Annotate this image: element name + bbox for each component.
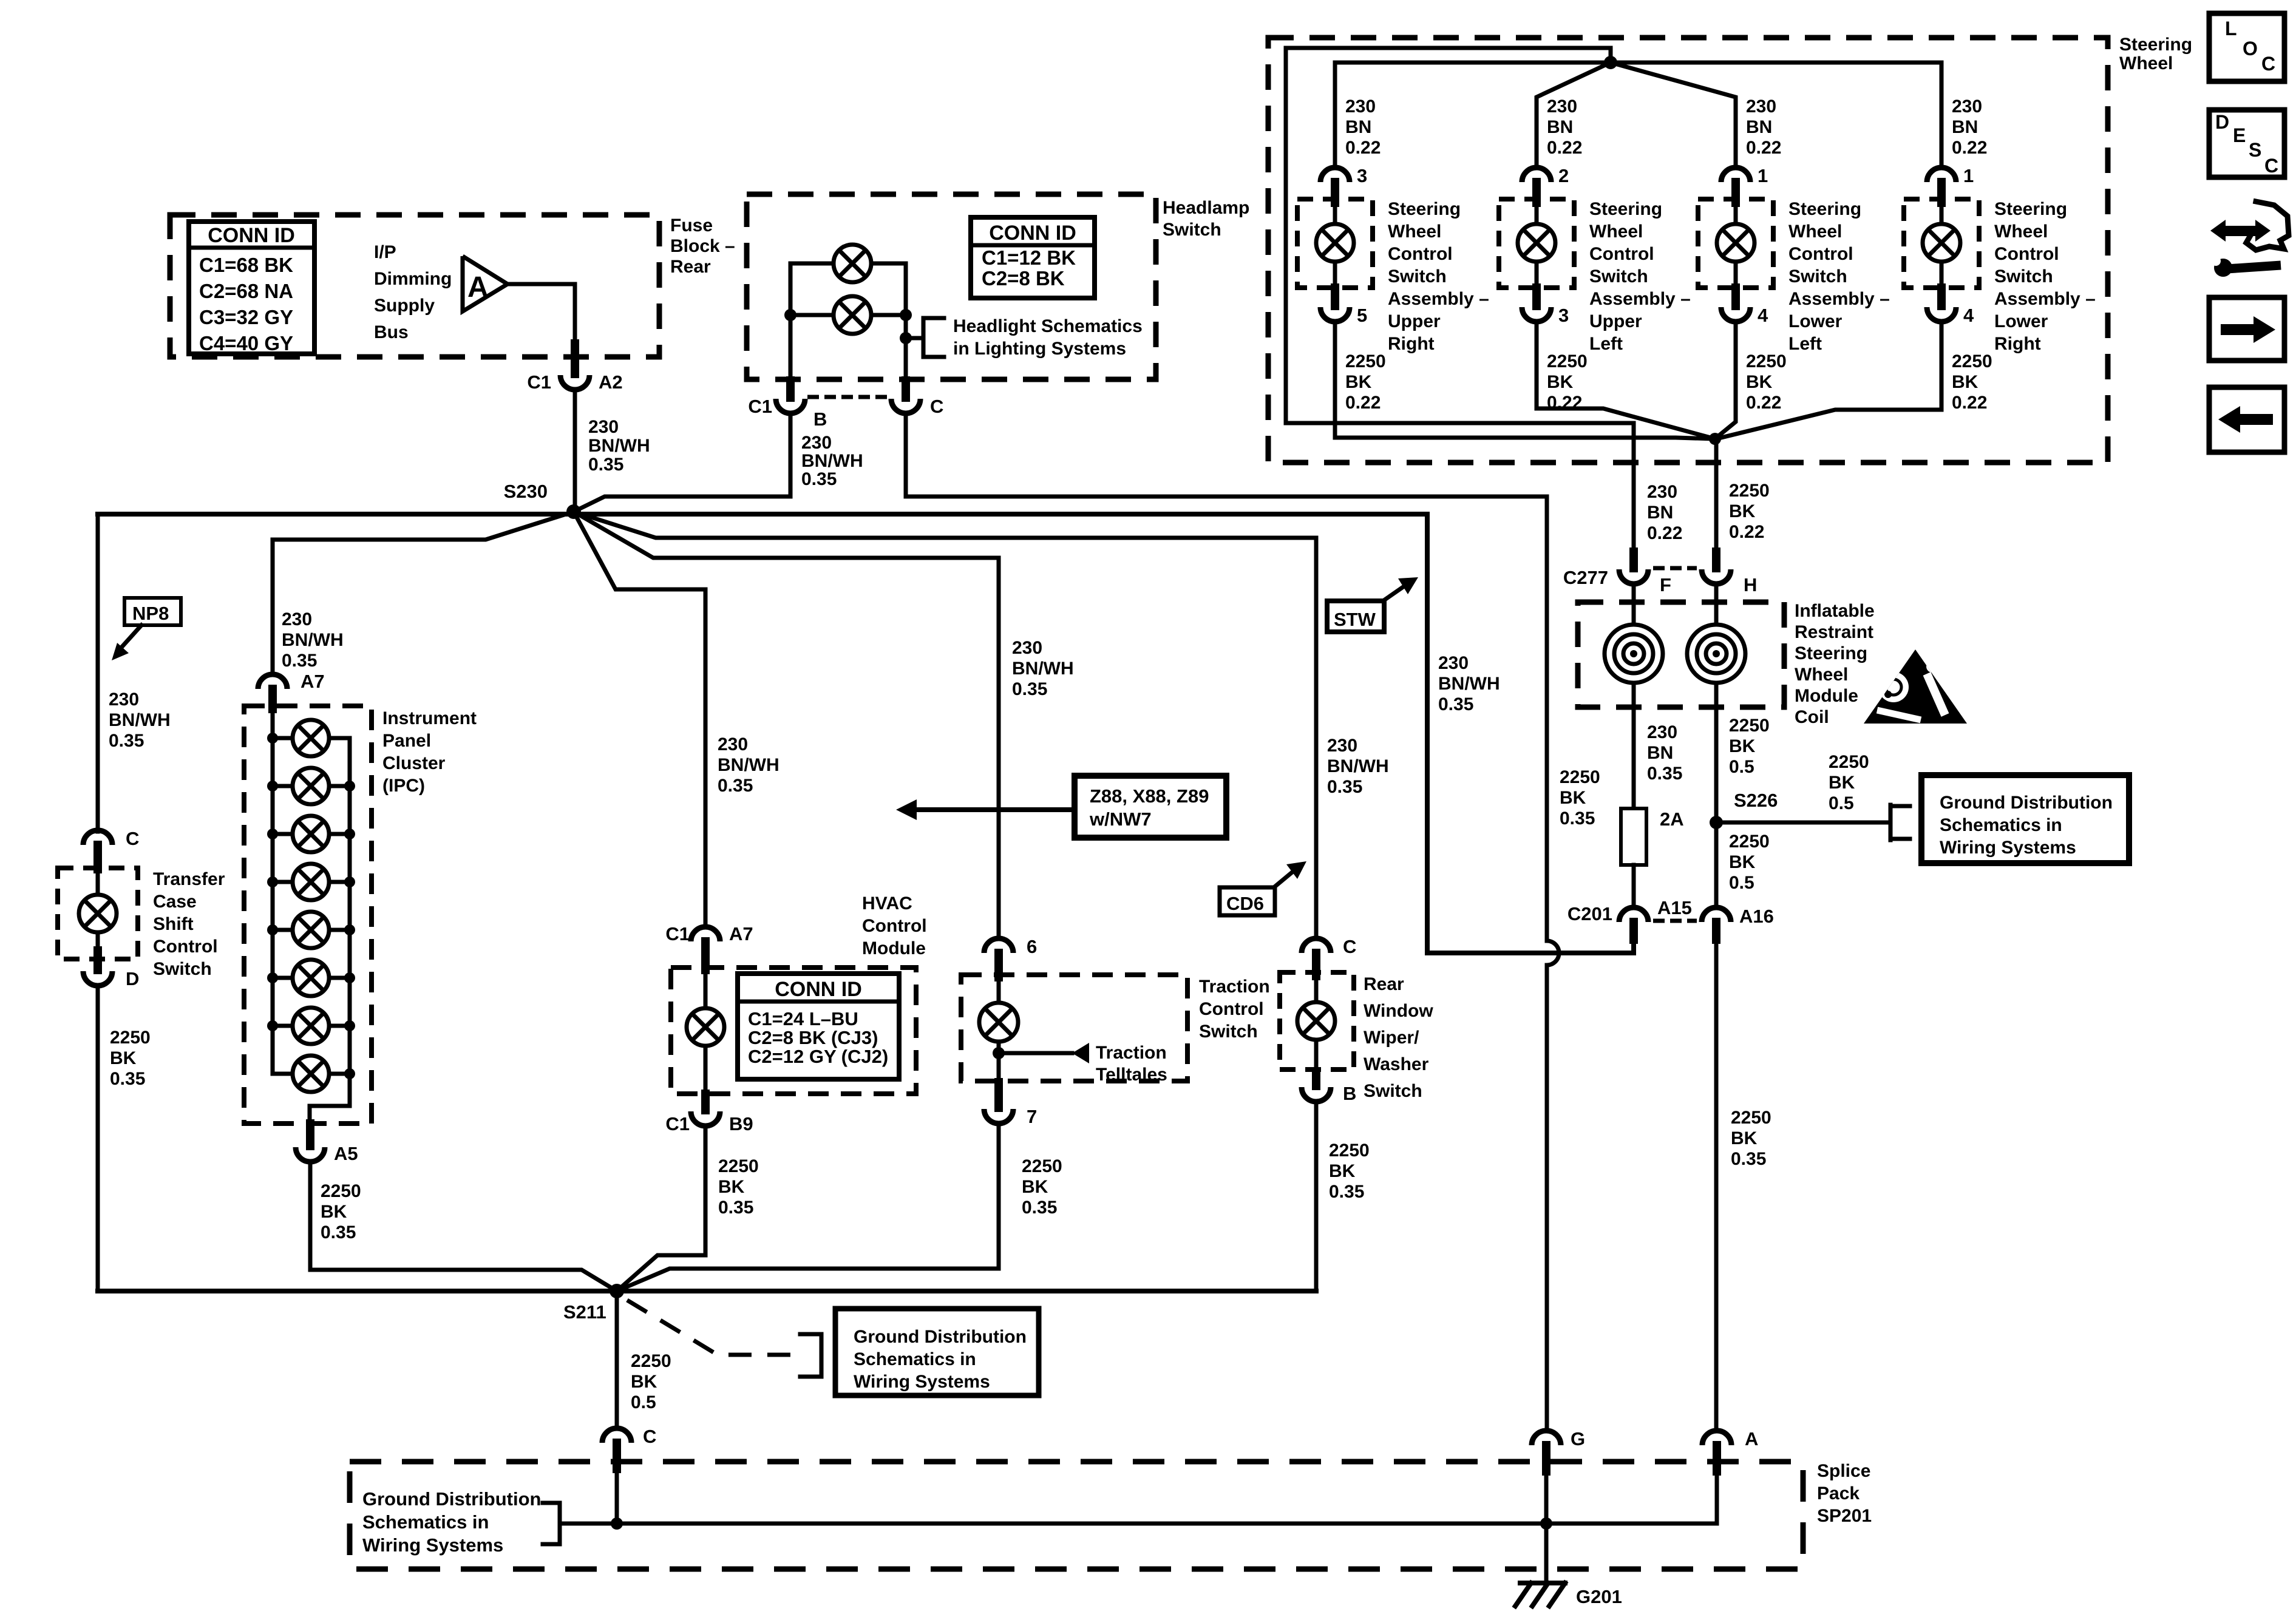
- svg-text:2: 2: [1558, 165, 1569, 186]
- svg-text:230: 230: [1647, 722, 1677, 742]
- ground return wire switch Upper Left: [1537, 322, 1715, 439]
- svg-text:3: 3: [1558, 305, 1569, 326]
- svg-text:Schematics in: Schematics in: [1940, 815, 2062, 835]
- svg-text:230: 230: [1327, 736, 1357, 756]
- svg-text:(IPC): (IPC): [382, 776, 425, 796]
- dashed connector face line C1-C: [807, 395, 888, 399]
- svg-text:Transfer: Transfer: [153, 869, 225, 889]
- svg-text:BK: BK: [1022, 1177, 1048, 1197]
- svg-text:Washer: Washer: [1364, 1054, 1429, 1074]
- buffer triangle A (I/P dimming supply): [463, 256, 508, 311]
- svg-text:4: 4: [1963, 305, 1974, 326]
- svg-text:0.22: 0.22: [1952, 138, 1987, 158]
- svg-text:2250: 2250: [1729, 716, 1770, 736]
- svg-text:Panel: Panel: [382, 731, 431, 751]
- steering wheel feed bus junction: [1604, 56, 1617, 69]
- connector 3 (steering wheel control switch Upper Left): [1532, 288, 1541, 306]
- svg-text:0.22: 0.22: [1729, 522, 1764, 542]
- connector 2 (steering wheel control switch Upper Left): [1522, 168, 1551, 182]
- inflatable restraint steering wheel module coil dashed box: [1578, 602, 1784, 707]
- svg-text:0.35: 0.35: [1327, 777, 1362, 797]
- svg-text:0.22: 0.22: [1345, 393, 1381, 413]
- svg-text:Assembly –: Assembly –: [1788, 289, 1890, 309]
- CONN ID table (headlamp switch): [971, 217, 1095, 298]
- svg-text:230: 230: [718, 734, 748, 754]
- junction dots on headlamp rails: [784, 309, 796, 321]
- left wall wire S230 down to transfer case switch C: [96, 514, 100, 832]
- legend icon forward arrow: [2209, 297, 2284, 361]
- svg-text:C277: C277: [1563, 567, 1608, 588]
- svg-text:BK: BK: [1729, 852, 1756, 872]
- svg-text:S: S: [2249, 139, 2261, 161]
- svg-text:Switch: Switch: [1589, 266, 1648, 286]
- svg-text:C1: C1: [665, 923, 690, 944]
- svg-text:BK: BK: [1729, 736, 1756, 756]
- svg-text:B9: B9: [729, 1113, 753, 1134]
- CONN ID table (fuse block rear): [189, 222, 314, 354]
- svg-text:BN/WH: BN/WH: [1438, 674, 1500, 694]
- svg-text:BK: BK: [110, 1048, 137, 1068]
- splice S226: [1710, 816, 1723, 829]
- wire S226 down to C201 A16 with label 2250 BK 0.5: [1714, 822, 1719, 907]
- svg-text:2250: 2250: [1729, 832, 1770, 852]
- svg-text:Headlight Schematics: Headlight Schematics: [953, 316, 1143, 336]
- svg-text:C: C: [126, 828, 139, 849]
- wire 7 down to S211 with label 2250 BK 0.35: [617, 1124, 999, 1291]
- junction dot on IPC right rail: [344, 924, 355, 935]
- IPC illumination bulb 5 with row wires: [273, 928, 293, 932]
- svg-text:7: 7: [1027, 1106, 1037, 1127]
- svg-text:0.5: 0.5: [631, 1392, 656, 1412]
- IPC illumination bulb 6 with row wires: [273, 976, 293, 980]
- svg-text:230: 230: [801, 433, 832, 453]
- svg-text:BN: BN: [1952, 117, 1978, 137]
- svg-text:Steering: Steering: [2119, 35, 2192, 55]
- coil winding F side: [1632, 584, 1636, 626]
- svg-text:F: F: [1660, 574, 1671, 595]
- svg-text:0.35: 0.35: [321, 1222, 356, 1242]
- svg-text:Steering: Steering: [1788, 199, 1861, 219]
- coil winding H side: [1714, 584, 1719, 626]
- svg-text:Wheel: Wheel: [1388, 222, 1441, 242]
- svg-text:C2=8 BK (CJ3): C2=8 BK (CJ3): [748, 1027, 878, 1048]
- wire B down to S211 main line with label 2250 BK 0.35: [1314, 1102, 1319, 1291]
- svg-text:Rear: Rear: [1364, 974, 1404, 994]
- svg-text:BN/WH: BN/WH: [718, 755, 779, 775]
- wire S230 to HVAC control module terminal A7: [574, 512, 705, 927]
- svg-text:Fuse: Fuse: [670, 215, 713, 236]
- svg-text:Wiring Systems: Wiring Systems: [362, 1534, 503, 1556]
- svg-text:0.22: 0.22: [1345, 138, 1381, 158]
- svg-text:2250: 2250: [1729, 481, 1770, 501]
- svg-text:Traction: Traction: [1199, 977, 1270, 997]
- svg-text:Upper: Upper: [1589, 311, 1642, 331]
- splice pack SP201 dashed enclosure: [350, 1462, 1803, 1569]
- traction control switch bulb: [997, 977, 1001, 1003]
- svg-text:2250: 2250: [1746, 351, 1787, 371]
- svg-text:A7: A7: [301, 671, 325, 692]
- svg-text:BK: BK: [1729, 501, 1756, 521]
- svg-text:w/NW7: w/NW7: [1089, 808, 1152, 830]
- svg-text:CONN ID: CONN ID: [208, 224, 295, 247]
- svg-text:Left: Left: [1589, 334, 1623, 354]
- svg-text:0.35: 0.35: [718, 776, 753, 796]
- connector C201 pin A16: [1702, 907, 1731, 922]
- svg-text:Switch: Switch: [1788, 266, 1847, 286]
- svg-text:1: 1: [1758, 165, 1768, 186]
- wire A5 down to S211 with label 2250 BK 0.35: [310, 1162, 617, 1291]
- svg-text:230: 230: [1547, 97, 1577, 117]
- svg-text:C1=68 BK: C1=68 BK: [199, 254, 293, 276]
- svg-text:0.22: 0.22: [1547, 138, 1582, 158]
- svg-text:C201: C201: [1567, 903, 1612, 924]
- svg-text:Coil: Coil: [1795, 707, 1829, 727]
- svg-text:Lower: Lower: [1994, 311, 2048, 331]
- svg-text:BN: BN: [1746, 117, 1772, 137]
- svg-text:Switch: Switch: [1364, 1081, 1422, 1101]
- svg-text:4: 4: [1758, 305, 1768, 326]
- junction dot splice bus at G: [1540, 1517, 1552, 1530]
- svg-text:D: D: [2215, 111, 2229, 133]
- svg-text:A2: A2: [599, 371, 623, 393]
- junction dot on IPC left rail: [267, 1020, 278, 1031]
- switch Lower Right illumination bulb: [1940, 203, 1944, 224]
- wire F coil to fuse with label 230 BN 0.35: [1632, 683, 1636, 808]
- switch Lower Left illumination bulb: [1734, 203, 1738, 224]
- wire B9 down to S211 with label 2250 BK 0.35: [617, 1126, 705, 1291]
- option label NP8 with arrow: [124, 598, 181, 625]
- instrument panel cluster dashed box: [244, 706, 372, 1124]
- wire A2 down to S230 with label 230 BN/WH 0.35: [573, 390, 577, 512]
- svg-text:3: 3: [1357, 165, 1367, 186]
- svg-text:Wiring Systems: Wiring Systems: [1940, 838, 2076, 858]
- svg-text:Module: Module: [862, 938, 926, 958]
- svg-text:Control: Control: [862, 916, 927, 936]
- IPC illumination bulb 2 with row wires: [273, 784, 293, 788]
- svg-text:0.35: 0.35: [1012, 679, 1047, 699]
- connector C (transfer case shift control switch): [83, 830, 112, 845]
- svg-text:2250: 2250: [718, 1156, 759, 1176]
- svg-text:Block –: Block –: [670, 236, 735, 256]
- switch Upper Left illumination bulb: [1535, 203, 1539, 224]
- svg-text:1: 1: [1963, 165, 1974, 186]
- svg-text:CONN ID: CONN ID: [775, 978, 862, 1001]
- headlamp switch dashed enclosure: [747, 194, 1156, 379]
- svg-text:D: D: [126, 968, 139, 989]
- svg-text:BK: BK: [631, 1372, 657, 1392]
- svg-text:BK: BK: [1746, 372, 1773, 392]
- wire S226 to ground distribution reference with label 2250 BK 0.5: [1716, 821, 1890, 825]
- svg-text:Steering: Steering: [1994, 199, 2067, 219]
- svg-text:Schematics in: Schematics in: [362, 1511, 489, 1533]
- dashed connector face line C277: [1653, 566, 1697, 571]
- junction dot on IPC left rail: [267, 781, 278, 792]
- svg-text:H: H: [1744, 574, 1757, 595]
- svg-text:Control: Control: [153, 937, 218, 957]
- svg-text:BN/WH: BN/WH: [801, 451, 863, 471]
- svg-text:2250: 2250: [1560, 767, 1600, 787]
- connector C (rear window wiper/washer switch): [1302, 938, 1331, 953]
- svg-text:2250: 2250: [1022, 1156, 1062, 1176]
- reference box Ground Distribution Schematics in Wiring Systems (S211): [835, 1309, 1039, 1395]
- option label Z88, X88, Z89 w/NW7 with arrow: [1075, 776, 1226, 838]
- svg-text:Wheel: Wheel: [1589, 222, 1643, 242]
- svg-text:BK: BK: [1952, 372, 1978, 392]
- transfer case switch illumination bulb: [96, 870, 100, 895]
- svg-text:G: G: [1571, 1428, 1585, 1449]
- svg-text:CD6: CD6: [1226, 893, 1264, 914]
- wire S230 main horizontal to left wall: [98, 512, 574, 517]
- connector C (splice pack SP201): [602, 1428, 631, 1443]
- svg-text:C2=8 BK: C2=8 BK: [982, 267, 1065, 290]
- CONN ID table (HVAC control module): [738, 974, 899, 1079]
- junction dot on IPC right rail: [344, 1020, 355, 1031]
- steering wheel control switch assembly Lower Right dashed box: [1904, 199, 1979, 288]
- svg-text:Wiring Systems: Wiring Systems: [854, 1372, 990, 1392]
- junction dot on IPC right rail: [344, 829, 355, 839]
- svg-text:Ground Distribution: Ground Distribution: [1940, 793, 2113, 813]
- svg-text:Steering: Steering: [1589, 199, 1662, 219]
- svg-text:Wheel: Wheel: [1795, 665, 1848, 685]
- svg-text:0.35: 0.35: [1731, 1149, 1766, 1169]
- svg-text:0.35: 0.35: [1647, 764, 1682, 784]
- svg-text:0.5: 0.5: [1829, 793, 1854, 813]
- wire S230 to instrument panel cluster terminal A7: [273, 512, 574, 674]
- svg-text:0.35: 0.35: [109, 731, 144, 751]
- connector 4 (steering wheel control switch Lower Right): [1937, 288, 1946, 306]
- svg-text:230: 230: [1647, 482, 1677, 502]
- junction dot on IPC left rail: [267, 972, 278, 983]
- svg-text:Inflatable: Inflatable: [1795, 601, 1875, 621]
- svg-text:S226: S226: [1734, 790, 1778, 811]
- svg-text:A: A: [1745, 1428, 1758, 1449]
- svg-text:5: 5: [1357, 305, 1367, 326]
- wire S230 to headlamp switch terminal B: [574, 413, 790, 512]
- svg-text:SP201: SP201: [1817, 1506, 1872, 1526]
- svg-text:Ground Distribution: Ground Distribution: [362, 1488, 541, 1510]
- svg-text:Lower: Lower: [1788, 311, 1843, 331]
- steering wheel control switch assembly Upper Right dashed box: [1297, 199, 1373, 288]
- wire headlamp C to ground splice pack G (2250 BK): [906, 413, 1559, 1431]
- svg-text:Control: Control: [1388, 244, 1453, 264]
- svg-text:Z88, X88, Z89: Z88, X88, Z89: [1090, 785, 1209, 807]
- svg-text:Assembly –: Assembly –: [1388, 289, 1489, 309]
- connector 1 (steering wheel control switch Lower Left): [1721, 168, 1750, 182]
- IPC illumination bulb 3 with row wires: [273, 832, 293, 836]
- svg-text:C2=12 GY (CJ2): C2=12 GY (CJ2): [748, 1046, 888, 1067]
- svg-text:Right: Right: [1994, 334, 2041, 354]
- steering wheel feed ring from C277 F: [1286, 48, 1634, 552]
- ground return wire switch Lower Right: [1716, 322, 1941, 439]
- svg-text:BN: BN: [1647, 503, 1673, 523]
- feed bus horizontal to switch risers: [1335, 61, 1941, 65]
- connector C1/B9 (HVAC control module): [701, 1094, 710, 1110]
- svg-text:Right: Right: [1388, 334, 1435, 354]
- svg-text:CONN ID: CONN ID: [989, 222, 1076, 245]
- svg-text:Steering: Steering: [1388, 199, 1461, 219]
- wire fuse down to C201 A15: [1632, 865, 1636, 907]
- wire G arc top joins headlamp ground vertical: [1545, 1429, 1549, 1433]
- svg-text:Instrument: Instrument: [382, 708, 477, 728]
- fuse block - rear dashed enclosure: [170, 215, 659, 357]
- svg-text:C4=40 GY: C4=40 GY: [199, 332, 293, 354]
- svg-text:Bus: Bus: [374, 322, 409, 342]
- connector 3 (steering wheel control switch Upper Right): [1320, 168, 1350, 182]
- svg-text:0.35: 0.35: [282, 651, 317, 671]
- svg-text:Switch: Switch: [153, 959, 212, 979]
- svg-text:in Lighting Systems: in Lighting Systems: [953, 339, 1126, 359]
- svg-text:0.35: 0.35: [1560, 808, 1595, 829]
- svg-text:A: A: [467, 271, 489, 303]
- headlamp switch internal wiring rails: [790, 263, 906, 379]
- junction dot on IPC right rail: [344, 972, 355, 983]
- junction dot on IPC left rail: [267, 876, 278, 887]
- dashed reference wire from S211 to ground distribution bracket: [627, 1300, 796, 1355]
- feed risers to switches 1 and 4: [1335, 63, 1941, 168]
- connector C1/A7 (HVAC control module): [691, 927, 720, 941]
- svg-text:Assembly –: Assembly –: [1994, 289, 2096, 309]
- svg-text:0.35: 0.35: [801, 469, 837, 489]
- transfer case shift control switch dashed box: [58, 868, 138, 959]
- svg-text:230: 230: [1746, 97, 1776, 117]
- junction dot on IPC right rail: [344, 1068, 355, 1079]
- svg-text:BK: BK: [1345, 372, 1372, 392]
- connector C1/A2 (fuse block to harness): [571, 344, 579, 374]
- wire S230 main to the right, down at x2351 to C201 A15 with hop over ground wire: [574, 514, 1634, 953]
- svg-text:Pack: Pack: [1817, 1483, 1860, 1503]
- connector A (splice pack SP201): [1702, 1431, 1731, 1445]
- svg-text:0.5: 0.5: [1729, 873, 1754, 893]
- svg-text:A15: A15: [1657, 897, 1692, 918]
- svg-text:2250: 2250: [1731, 1108, 1771, 1128]
- wire C201 A16 down to splice pack A with label 2250 BK 0.35: [1714, 940, 1719, 1431]
- svg-text:B: B: [1343, 1083, 1356, 1104]
- svg-text:0.35: 0.35: [1329, 1182, 1364, 1202]
- connector A7 (instrument panel cluster): [258, 674, 287, 689]
- svg-text:NP8: NP8: [132, 603, 169, 624]
- svg-text:230: 230: [1438, 653, 1469, 673]
- svg-text:Telltales: Telltales: [1096, 1065, 1167, 1085]
- svg-text:G201: G201: [1576, 1586, 1622, 1607]
- connector G (splice pack SP201): [1532, 1431, 1561, 1445]
- legend icon LOC: [2209, 13, 2284, 81]
- svg-text:2250: 2250: [631, 1351, 671, 1371]
- junction dot on IPC left rail: [267, 733, 278, 744]
- svg-text:C: C: [930, 396, 943, 417]
- svg-text:A7: A7: [729, 923, 753, 944]
- svg-text:Wiper/: Wiper/: [1364, 1028, 1419, 1048]
- steering wheel control switch assembly Lower Left dashed box: [1698, 199, 1773, 288]
- wire S211 main horizontal from left wall to rear wiper return: [98, 1289, 1316, 1293]
- svg-text:230: 230: [109, 690, 139, 710]
- svg-text:Wheel: Wheel: [1788, 222, 1842, 242]
- svg-text:C: C: [643, 1426, 656, 1447]
- svg-text:2A: 2A: [1660, 808, 1684, 830]
- option label STW with arrow: [1327, 601, 1384, 632]
- IPC return rail (right) with exit jog to A5: [310, 738, 350, 1124]
- svg-text:B: B: [813, 408, 827, 430]
- connector 5 (steering wheel control switch Upper Right): [1331, 288, 1339, 306]
- IPC illumination bulb 4 with row wires: [273, 880, 293, 884]
- connector C (headlamp switch): [902, 381, 910, 398]
- connector C201 pin A15: [1619, 907, 1648, 922]
- svg-text:0.22: 0.22: [1952, 393, 1987, 413]
- wire G down to ground G201: [1544, 1524, 1549, 1583]
- svg-text:BK: BK: [1731, 1128, 1758, 1148]
- splice S230: [566, 504, 581, 519]
- splice pack internal bus wire: [560, 1522, 1717, 1526]
- ground return wire switch Upper Right: [1335, 322, 1715, 439]
- steering wheel control switch assembly Upper Left dashed box: [1499, 199, 1574, 288]
- svg-text:Cluster: Cluster: [382, 753, 446, 773]
- svg-text:0.35: 0.35: [718, 1198, 753, 1218]
- connector D (transfer case shift control switch): [93, 951, 102, 970]
- svg-text:C2=68 NA: C2=68 NA: [199, 280, 293, 302]
- svg-text:S230: S230: [504, 481, 548, 502]
- svg-text:O: O: [2243, 38, 2258, 59]
- svg-text:BN/WH: BN/WH: [588, 436, 650, 456]
- svg-text:L: L: [2225, 18, 2237, 39]
- svg-text:Traction: Traction: [1096, 1043, 1167, 1063]
- ground return wire switch Lower Left: [1716, 322, 1736, 438]
- svg-text:0.35: 0.35: [1438, 694, 1473, 714]
- svg-text:C3=32 GY: C3=32 GY: [199, 306, 293, 328]
- IPC feed rail (left): [271, 709, 275, 1074]
- connector 7 (traction control switch): [994, 1082, 1003, 1108]
- svg-text:2250: 2250: [1829, 752, 1869, 772]
- svg-text:I/P: I/P: [374, 242, 396, 262]
- svg-text:2250: 2250: [1547, 351, 1588, 371]
- svg-text:230: 230: [1952, 97, 1982, 117]
- svg-text:BK: BK: [1829, 773, 1855, 793]
- legend icon backward arrow: [2209, 387, 2284, 452]
- svg-text:2250: 2250: [1952, 351, 1992, 371]
- option label CD6 with arrow: [1220, 887, 1275, 915]
- svg-text:STW: STW: [1334, 609, 1376, 630]
- svg-text:BN/WH: BN/WH: [1327, 756, 1389, 776]
- svg-text:BK: BK: [718, 1177, 745, 1197]
- junction dot on IPC right rail: [344, 781, 355, 792]
- svg-text:C1: C1: [665, 1113, 690, 1134]
- svg-text:2250: 2250: [1345, 351, 1386, 371]
- svg-text:BK: BK: [1560, 788, 1586, 808]
- svg-text:Window: Window: [1364, 1001, 1433, 1021]
- svg-text:Schematics in: Schematics in: [854, 1349, 976, 1369]
- svg-text:0.35: 0.35: [1022, 1198, 1057, 1218]
- wire D down to S211 with label 2250 BK 0.35: [96, 986, 100, 1291]
- svg-text:6: 6: [1027, 936, 1037, 957]
- svg-text:BN: BN: [1547, 117, 1573, 137]
- svg-text:Control: Control: [1589, 244, 1654, 264]
- svg-text:C1=24 L–BU: C1=24 L–BU: [748, 1008, 858, 1029]
- junction dot on IPC right rail: [344, 876, 355, 887]
- svg-text:Control: Control: [1199, 999, 1264, 1019]
- connector C1/B (headlamp switch): [786, 381, 795, 398]
- svg-text:BN/WH: BN/WH: [282, 630, 344, 650]
- svg-text:230: 230: [588, 417, 619, 437]
- feed diagonals to switches 2 and 3: [1537, 63, 1736, 168]
- ground trunk down to C277 H: [1714, 439, 1719, 552]
- svg-text:Supply: Supply: [374, 296, 435, 316]
- svg-text:Control: Control: [1994, 244, 2059, 264]
- svg-text:Switch: Switch: [1994, 266, 2053, 286]
- svg-text:BN: BN: [1647, 743, 1673, 763]
- steering wheel ground collector junction: [1709, 433, 1721, 445]
- wire S211 down to splice pack C with label 2250 BK 0.5: [615, 1291, 619, 1428]
- splice S211: [610, 1284, 624, 1298]
- svg-text:HVAC: HVAC: [862, 893, 912, 914]
- svg-text:Dimming: Dimming: [374, 269, 452, 289]
